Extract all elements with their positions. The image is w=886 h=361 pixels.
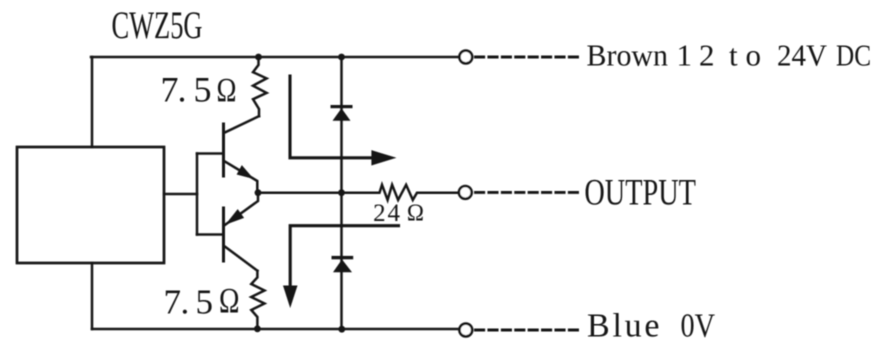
wire output from node xyxy=(258,191,377,194)
svg-text:Ω: Ω xyxy=(217,72,237,109)
transistor Q1 emitter arrowhead xyxy=(237,165,254,179)
svg-text:0V: 0V xyxy=(681,307,716,344)
wire base from box xyxy=(164,193,197,196)
transistor Q2 collector xyxy=(225,247,257,271)
resistor R1 7.5 ohm top xyxy=(253,57,267,116)
junction dot bus bottom xyxy=(338,326,345,333)
wire left vertical top xyxy=(91,57,94,147)
svg-text:24: 24 xyxy=(373,200,400,227)
svg-text:Ω: Ω xyxy=(219,281,240,321)
transistor Q2 PNP bar xyxy=(222,208,225,261)
current flow arrow top line xyxy=(290,76,372,158)
junction dot bottom rail resistor xyxy=(254,325,261,332)
wire bottom rail xyxy=(92,328,458,331)
wire left vertical bottom xyxy=(91,263,94,329)
svg-text:24V: 24V xyxy=(777,37,828,72)
current flow arrow top head xyxy=(371,150,396,165)
current flow arrow bottom line xyxy=(290,226,398,287)
resistor R2 7.5 ohm bottom xyxy=(251,271,264,329)
transistor Q2 emitter arrowhead xyxy=(225,209,244,225)
node output junction dot xyxy=(255,189,262,196)
terminal circle output xyxy=(459,186,472,199)
svg-text:to: to xyxy=(729,37,761,72)
transistor Q2 emitter xyxy=(225,193,258,225)
resistor R3 24 ohm xyxy=(377,185,458,200)
junction dot bus output xyxy=(338,189,345,196)
svg-text:Brown: Brown xyxy=(587,37,669,72)
diode D2 triangle xyxy=(333,259,352,272)
terminal circle blue xyxy=(459,324,472,337)
svg-text:OUTPUT: OUTPUT xyxy=(584,172,696,213)
dashed lead blue xyxy=(476,329,579,332)
dashed lead brown xyxy=(476,56,579,59)
svg-text:Ω: Ω xyxy=(407,201,424,227)
svg-text:CWZ5G: CWZ5G xyxy=(112,3,203,47)
transistor Q1 NPN bar xyxy=(222,124,225,176)
transistor Q1 collector xyxy=(225,116,259,132)
terminal circle brown xyxy=(459,51,472,64)
junction dot top rail resistor xyxy=(255,54,262,61)
current flow arrow bottom head xyxy=(283,286,298,309)
wire base stub bottom xyxy=(197,233,223,236)
dashed lead output xyxy=(476,191,579,194)
diode D1 triangle xyxy=(333,108,351,121)
wire base vertical xyxy=(196,154,199,235)
wire diode bus vertical xyxy=(340,57,343,329)
junction dot bus top xyxy=(338,54,345,61)
diode D2 cathode bar xyxy=(332,256,354,259)
label Blue 0V xyxy=(587,307,715,344)
transistor Q1 emitter xyxy=(224,161,257,190)
svg-text:DC: DC xyxy=(836,37,871,72)
sensor body box xyxy=(17,147,164,263)
diode D1 cathode bar xyxy=(331,105,353,108)
label Brown 12 to 24V DC xyxy=(587,37,872,72)
wire base stub top xyxy=(197,152,223,155)
wire top rail xyxy=(91,56,458,59)
svg-text:7.5: 7.5 xyxy=(164,283,214,322)
svg-text:7.5: 7.5 xyxy=(161,70,212,110)
